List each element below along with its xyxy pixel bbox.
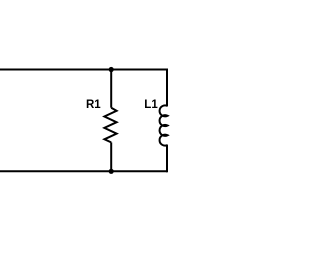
resistor R1 xyxy=(104,108,116,143)
wire inductor top lead xyxy=(166,69,168,107)
wire resistor bottom lead xyxy=(110,142,112,171)
svg-text:R1: R1 xyxy=(86,99,101,111)
node A junction dot xyxy=(109,67,114,72)
wire top from left edge to node A xyxy=(0,69,111,71)
wire top from node A to inductor branch xyxy=(111,69,167,71)
node B junction dot xyxy=(109,169,114,174)
wire bottom from left edge to node B xyxy=(0,170,111,172)
wire bottom from node B to inductor branch xyxy=(111,170,167,172)
svg-text:L1: L1 xyxy=(144,99,158,111)
wire inductor bottom lead xyxy=(166,145,168,173)
inductor L1 xyxy=(160,105,168,145)
wire resistor top lead xyxy=(110,70,112,108)
